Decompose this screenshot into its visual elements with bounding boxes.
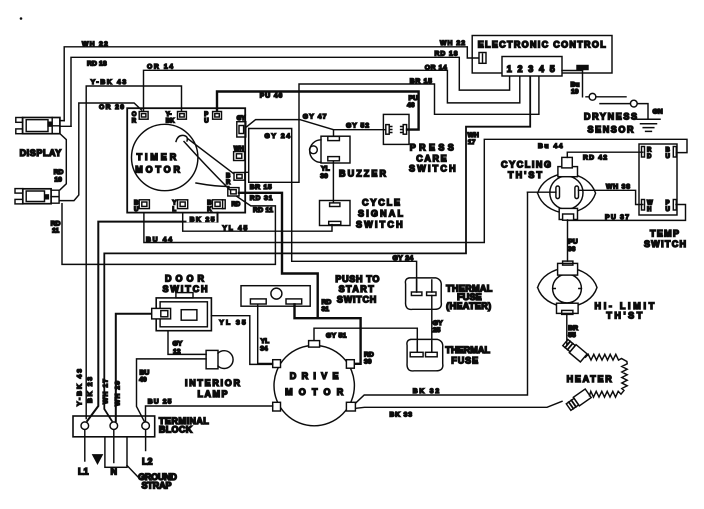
wire Bu 19 (571, 66, 589, 97)
svg-text:10: 10 (54, 176, 62, 183)
svg-text:(HEATER): (HEATER) (446, 301, 491, 311)
svg-text:GY: GY (433, 320, 443, 327)
drive motor M1 (273, 341, 356, 426)
svg-text:BLOCK: BLOCK (159, 424, 193, 434)
svg-text:H: H (647, 207, 651, 213)
wire BK 32 (356, 192, 528, 403)
svg-text:31: 31 (322, 306, 330, 313)
svg-text:RD: RD (54, 169, 64, 176)
timer terminal OR (132, 112, 148, 125)
svg-text:RD 42: RD 42 (583, 155, 607, 162)
svg-text:RD: RD (51, 220, 61, 227)
svg-text:DRYNESS: DRYNESS (584, 111, 637, 121)
wire BU 44 (144, 139, 687, 243)
svg-text:B: B (226, 174, 231, 180)
svg-text:BU 44: BU 44 (146, 236, 172, 243)
svg-text:40: 40 (139, 377, 147, 384)
wire GY 51 (314, 328, 417, 352)
svg-text:HI- LIMIT: HI- LIMIT (595, 301, 655, 311)
push to start switch (241, 274, 379, 306)
svg-text:1 2 3 4 5: 1 2 3 4 5 (507, 64, 555, 74)
svg-text:GY: GY (173, 341, 183, 348)
timer terminal YL (172, 200, 187, 213)
wire YL 39 (320, 162, 333, 203)
interior lamp (185, 350, 241, 399)
wire YL 35 (211, 316, 272, 365)
svg-text:B: B (207, 201, 212, 207)
timer terminal Y-BK (166, 112, 187, 125)
wire GY 25 (432, 296, 443, 353)
svg-text:25: 25 (433, 327, 441, 334)
wire PU 36 (568, 220, 578, 261)
svg-text:RD 31: RD 31 (250, 195, 273, 202)
svg-text:U: U (666, 154, 670, 160)
svg-text:R: R (647, 148, 652, 154)
wire YL 45 (183, 213, 332, 232)
svg-text:Y-: Y- (166, 112, 172, 118)
svg-text:19: 19 (571, 89, 579, 96)
svg-text:YL: YL (321, 166, 330, 173)
svg-text:U: U (666, 207, 670, 213)
svg-text:P: P (204, 112, 208, 118)
wire pin5 to dryness plug (562, 70, 583, 72)
svg-text:RD 11: RD 11 (253, 207, 273, 214)
wire PU 46 (217, 92, 419, 130)
wire BK 25 (87, 213, 218, 421)
svg-text:L1: L1 (78, 466, 89, 476)
wire WH 17 (102, 76, 530, 421)
svg-text:D: D (647, 154, 652, 160)
svg-text:46: 46 (407, 102, 415, 109)
timer cam follower (176, 135, 234, 189)
thermal fuse (heater) F1 (405, 278, 492, 311)
svg-text:BK 33: BK 33 (390, 411, 413, 418)
svg-text:17: 17 (468, 139, 476, 146)
wire YL 34 (258, 304, 273, 363)
svg-text:BR 15: BR 15 (250, 184, 272, 191)
heater terminal lower (566, 389, 592, 411)
timer terminal RD (228, 188, 241, 209)
display connector upper (16, 118, 71, 134)
svg-text:GY 24: GY 24 (265, 133, 291, 140)
wire Y-BK 43 (77, 79, 182, 419)
wire BU 25 (146, 398, 273, 421)
svg-text:THERMAL: THERMAL (445, 345, 490, 355)
svg-text:ELECTRONIC CONTROL: ELECTRONIC CONTROL (478, 40, 607, 50)
heater element (567, 354, 628, 397)
svg-text:PUSH TO: PUSH TO (335, 274, 379, 284)
svg-text:GY 52: GY 52 (346, 122, 369, 129)
wire OR 20 (59, 103, 141, 201)
svg-text:BU: BU (140, 369, 150, 376)
svg-text:K: K (207, 207, 212, 213)
temp switch (639, 144, 686, 249)
svg-text:RD: RD (364, 351, 374, 358)
svg-text:N: N (111, 466, 118, 476)
svg-text:RD: RD (232, 202, 241, 208)
svg-text:TEMP: TEMP (650, 228, 679, 238)
wire BR 15 (245, 76, 539, 191)
svg-text:OR 14: OR 14 (147, 63, 173, 70)
svg-text:GY 47: GY 47 (303, 113, 327, 120)
timer terminal BU (134, 200, 149, 213)
svg-text:RD 18: RD 18 (435, 51, 458, 58)
svg-text:Bu 44: Bu 44 (538, 143, 563, 150)
svg-text:RD 18: RD 18 (87, 60, 107, 67)
svg-text:11: 11 (52, 227, 59, 234)
svg-text:SENSOR: SENSOR (588, 124, 635, 134)
svg-text:MOTOR: MOTOR (135, 164, 180, 174)
door switch (152, 274, 212, 331)
press care switch S1 (383, 114, 455, 173)
svg-text:U: U (204, 118, 208, 124)
svg-text:PU: PU (568, 239, 578, 246)
svg-text:L2: L2 (142, 457, 153, 467)
svg-text:34: 34 (260, 345, 268, 352)
svg-text:OR 20: OR 20 (99, 104, 124, 111)
wire BU 40 (137, 359, 207, 421)
svg-text:PU 46: PU 46 (260, 93, 283, 100)
svg-text:55: 55 (568, 332, 576, 339)
svg-text:PU 37: PU 37 (605, 214, 629, 221)
svg-text:SWITCH: SWITCH (337, 294, 376, 304)
cycling thermostat (501, 157, 596, 220)
svg-text:R: R (226, 180, 231, 186)
wire OR 14 (144, 63, 520, 111)
wire RD 10 (54, 134, 67, 190)
svg-text:RD: RD (322, 299, 332, 306)
svg-text:YL 45: YL 45 (222, 225, 247, 232)
svg-text:OR 14: OR 14 (425, 64, 447, 71)
svg-text:DISPLAY: DISPLAY (20, 148, 62, 158)
svg-text:WH: WH (468, 132, 479, 139)
wire cycling left to BK 32 (528, 191, 556, 193)
node L1 (78, 430, 89, 476)
svg-text:GY: GY (237, 116, 246, 122)
wire RD 11 (51, 196, 276, 264)
terminal block (73, 416, 209, 437)
wire WH 29 (115, 314, 153, 421)
svg-text:WH 22: WH 22 (82, 41, 108, 48)
svg-text:B: B (666, 148, 671, 154)
thermal fuse F2 (407, 339, 491, 371)
svg-text:START: START (339, 284, 375, 294)
wire RD 42 (567, 152, 643, 161)
wire GY 12 (168, 331, 206, 356)
timer motor box (127, 108, 245, 212)
svg-text:BK 32: BK 32 (413, 388, 440, 395)
timer terminal BK (207, 200, 225, 213)
svg-text:Y: Y (172, 201, 176, 207)
wire WH 38 (579, 184, 643, 205)
svg-text:BU 25: BU 25 (148, 398, 172, 405)
timer terminal PU (204, 112, 221, 125)
node L2 (142, 430, 153, 467)
svg-text:WH 29: WH 29 (115, 381, 122, 406)
node N (111, 430, 118, 476)
wire PU 37 (568, 205, 686, 221)
svg-text:L: L (172, 207, 176, 213)
svg-text:B: B (134, 201, 139, 207)
timer terminal BR (226, 173, 245, 187)
svg-text:WH: WH (234, 147, 244, 153)
svg-text:W: W (647, 201, 653, 207)
svg-text:GN: GN (653, 109, 663, 116)
ground strap (93, 437, 178, 491)
svg-text:BK 23: BK 23 (87, 377, 94, 403)
svg-text:12: 12 (173, 348, 181, 355)
wire WH 22 (64, 40, 478, 120)
svg-text:WH 22: WH 22 (440, 40, 465, 47)
svg-text:GY 24: GY 24 (393, 255, 414, 262)
wire GY 24 (249, 129, 417, 293)
svg-text:O: O (132, 112, 137, 118)
svg-text:BK 25: BK 25 (190, 216, 215, 223)
wire BK 33 (355, 401, 563, 418)
svg-text:U: U (134, 207, 138, 213)
cycle signal switch (320, 198, 404, 230)
svg-text:36: 36 (568, 246, 576, 253)
buzzer (310, 136, 387, 178)
svg-text:Bu: Bu (571, 81, 580, 88)
display connector lower (15, 189, 59, 204)
svg-text:BR 15: BR 15 (410, 78, 432, 85)
wire RD 31 (239, 193, 374, 366)
wire RD 18 (71, 51, 510, 127)
svg-text:STRAP: STRAP (142, 481, 172, 491)
wire GY 47 (246, 113, 334, 136)
svg-text:BK: BK (166, 118, 175, 124)
svg-text:GY 51: GY 51 (326, 332, 347, 339)
stray dot (20, 17, 23, 20)
wire GY 52 (334, 122, 386, 129)
svg-text:CYCLE: CYCLE (362, 198, 400, 208)
svg-text:CYCLING: CYCLING (501, 160, 551, 170)
ground GN (637, 109, 663, 132)
svg-text:BR: BR (568, 325, 578, 332)
svg-text:30: 30 (364, 359, 372, 366)
wire BR 55 (567, 314, 578, 344)
svg-text:WH 38: WH 38 (606, 184, 630, 191)
svg-text:R: R (132, 119, 137, 125)
heater terminal upper (562, 338, 587, 361)
svg-text:PU: PU (409, 95, 419, 102)
timer terminal GY (237, 116, 246, 137)
svg-text:LAMP: LAMP (198, 389, 228, 399)
svg-text:P: P (666, 201, 670, 207)
svg-text:WH 17: WH 17 (102, 379, 109, 404)
electronic control pin block 1 2 3 4 5 (502, 57, 562, 77)
svg-text:39: 39 (320, 173, 328, 180)
svg-text:YL 35: YL 35 (219, 319, 246, 326)
timer terminal WH (234, 147, 245, 161)
hi-limit thermostat (538, 261, 655, 321)
svg-text:TH'ST: TH'ST (508, 170, 543, 180)
dryness sensor switch (584, 93, 648, 134)
svg-text:YL: YL (261, 338, 270, 345)
svg-text:TH'ST: TH'ST (606, 311, 642, 321)
electronic control U1 (472, 36, 612, 74)
svg-text:FUSE: FUSE (451, 355, 478, 365)
